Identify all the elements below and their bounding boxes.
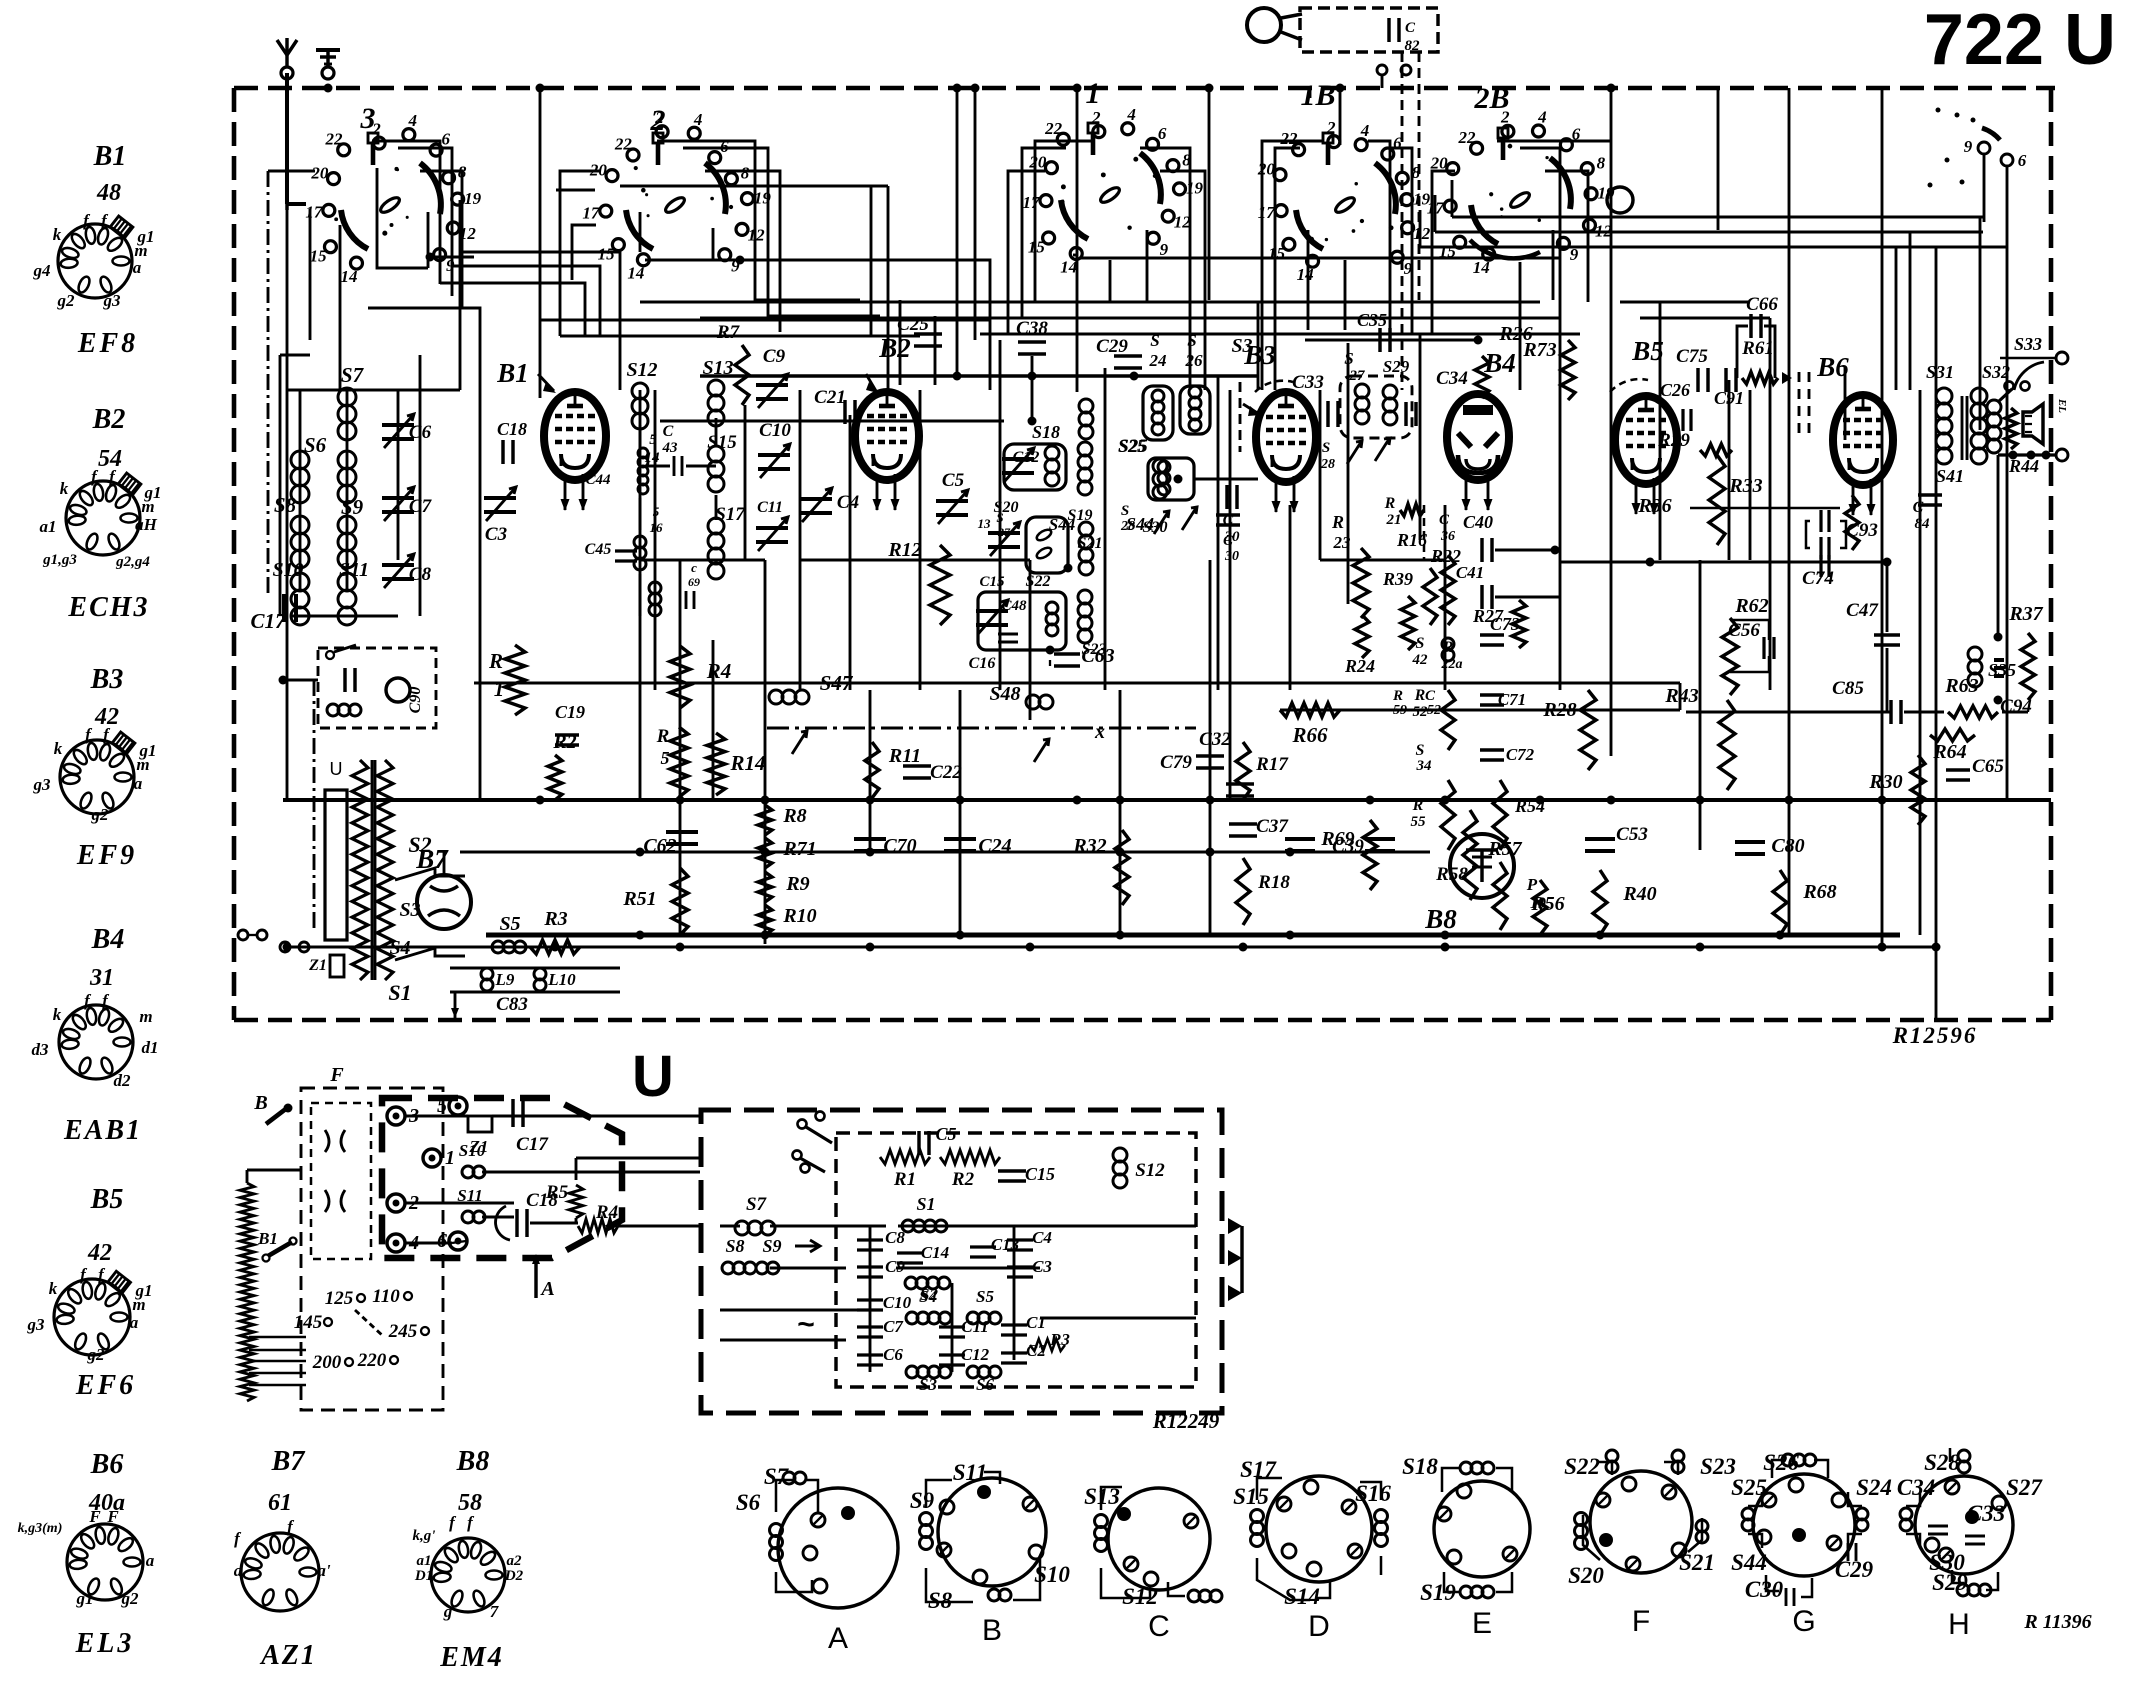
svg-text:g1,g3: g1,g3 — [42, 552, 77, 568]
svg-text:C65: C65 — [1972, 756, 2004, 777]
svg-text:S33: S33 — [2014, 334, 2042, 354]
svg-text:R12596: R12596 — [1892, 1023, 1978, 1048]
svg-text:C47: C47 — [1846, 600, 1879, 621]
svg-text:84: 84 — [1915, 516, 1931, 532]
svg-text:34: 34 — [1416, 758, 1433, 774]
svg-text:C85: C85 — [1832, 678, 1864, 699]
svg-text:R61: R61 — [1741, 338, 1774, 359]
svg-text:g2: g2 — [87, 1345, 106, 1364]
svg-text:22: 22 — [1279, 129, 1298, 148]
svg-text:C70: C70 — [883, 835, 916, 857]
svg-text:S48: S48 — [989, 683, 1020, 705]
svg-text:S32: S32 — [1982, 362, 2010, 382]
svg-text:R10: R10 — [782, 905, 816, 927]
svg-text:g2: g2 — [57, 291, 76, 310]
svg-text:a: a — [133, 258, 142, 277]
svg-text:C32: C32 — [1199, 729, 1231, 750]
svg-text:S4: S4 — [389, 937, 410, 959]
svg-text:S18: S18 — [1032, 422, 1060, 442]
svg-text:C39: C39 — [1332, 836, 1364, 857]
svg-text:C91: C91 — [1714, 388, 1744, 408]
svg-text:S: S — [1322, 440, 1330, 456]
svg-text:2B: 2B — [1473, 82, 1509, 115]
svg-text:31: 31 — [89, 965, 114, 991]
svg-text:B2: B2 — [92, 404, 126, 435]
svg-text:C53: C53 — [1616, 824, 1648, 845]
svg-text:S27: S27 — [2006, 1475, 2043, 1500]
svg-text:S44: S44 — [1731, 1550, 1767, 1575]
svg-text:C7: C7 — [883, 1317, 904, 1336]
svg-text:EF9: EF9 — [76, 840, 137, 871]
svg-text:69: 69 — [688, 575, 700, 589]
svg-text:d3: d3 — [32, 1040, 50, 1059]
svg-text:S8: S8 — [725, 1236, 744, 1256]
svg-text:C72: C72 — [1506, 745, 1535, 764]
svg-text:R: R — [1384, 495, 1396, 512]
svg-text:S7: S7 — [341, 363, 365, 387]
svg-text:C34: C34 — [1897, 1475, 1935, 1500]
svg-text:5: 5 — [661, 748, 670, 768]
svg-text:C66: C66 — [1746, 294, 1778, 315]
svg-text:22: 22 — [1457, 128, 1476, 147]
svg-text:C80: C80 — [1771, 835, 1804, 857]
svg-text:F: F — [1632, 1605, 1650, 1638]
svg-text:S3: S3 — [1231, 335, 1252, 357]
svg-text:6: 6 — [1158, 124, 1167, 143]
svg-text:R44: R44 — [2008, 456, 2039, 476]
svg-text:a: a — [134, 774, 143, 793]
svg-text:R27: R27 — [1472, 606, 1504, 626]
svg-text:R16: R16 — [1396, 530, 1427, 550]
svg-text:AZ1: AZ1 — [259, 1640, 317, 1671]
svg-text:C79: C79 — [1160, 752, 1192, 773]
svg-text:S3: S3 — [399, 899, 420, 921]
svg-text:C75: C75 — [1676, 346, 1708, 367]
svg-text:C33: C33 — [1967, 1501, 2005, 1526]
svg-text:EAB1: EAB1 — [63, 1115, 142, 1146]
svg-text:C48: C48 — [1001, 598, 1027, 614]
svg-text:19: 19 — [464, 189, 482, 208]
svg-text:28: 28 — [1120, 519, 1135, 534]
svg-text:17: 17 — [305, 203, 324, 222]
svg-text:S9: S9 — [762, 1236, 781, 1256]
svg-text:1B: 1B — [1300, 79, 1335, 112]
svg-text:R14: R14 — [729, 751, 765, 775]
svg-text:C: C — [663, 423, 674, 440]
svg-text:43: 43 — [662, 440, 679, 456]
svg-text:C: C — [1913, 499, 1924, 516]
svg-text:14: 14 — [340, 267, 357, 286]
svg-text:R66: R66 — [1291, 723, 1328, 747]
svg-text:R18: R18 — [1257, 872, 1290, 893]
svg-text:EL: EL — [2056, 398, 2068, 413]
svg-text:20: 20 — [1430, 153, 1449, 172]
svg-text:F: F — [88, 1507, 101, 1526]
svg-text:g3: g3 — [103, 291, 122, 310]
svg-text:L10: L10 — [547, 970, 576, 989]
svg-text:C21: C21 — [814, 387, 846, 408]
svg-text:B5: B5 — [90, 1184, 124, 1215]
svg-text:R7: R7 — [716, 322, 741, 343]
svg-text:R71: R71 — [782, 838, 816, 860]
svg-text:S1: S1 — [916, 1194, 935, 1214]
svg-text:C: C — [1425, 688, 1436, 704]
svg-text:B7: B7 — [271, 1446, 306, 1477]
svg-text:S28: S28 — [1924, 1450, 1960, 1475]
svg-text:S8: S8 — [274, 493, 297, 517]
svg-text:S41: S41 — [1936, 466, 1964, 486]
svg-text:m: m — [139, 1007, 152, 1026]
svg-text:C16: C16 — [969, 655, 996, 672]
svg-text:ECH3: ECH3 — [67, 592, 149, 623]
svg-text:EF6: EF6 — [75, 1370, 136, 1401]
svg-text:14: 14 — [1297, 265, 1314, 284]
svg-text:R73: R73 — [1522, 339, 1556, 361]
svg-text:R12249: R12249 — [1152, 1409, 1220, 1433]
svg-text:42: 42 — [87, 1240, 112, 1266]
svg-text:59: 59 — [1393, 703, 1407, 718]
svg-text:F: F — [329, 1064, 344, 1086]
svg-text:R37: R37 — [2008, 603, 2043, 625]
svg-text:S: S — [1121, 503, 1129, 519]
svg-text:g: g — [443, 1602, 453, 1621]
svg-text:C3: C3 — [1032, 1257, 1052, 1276]
svg-text:22: 22 — [325, 129, 344, 148]
svg-text:C34: C34 — [1436, 368, 1468, 389]
svg-text:C12: C12 — [1013, 449, 1040, 466]
svg-text:B8: B8 — [456, 1446, 490, 1477]
svg-text:R: R — [656, 726, 670, 747]
svg-text:1: 1 — [445, 1147, 455, 1169]
svg-text:k,g3(m): k,g3(m) — [18, 1521, 63, 1536]
svg-text:R1: R1 — [893, 1169, 916, 1190]
svg-text:20: 20 — [310, 163, 329, 182]
svg-text:C15: C15 — [1025, 1164, 1055, 1184]
svg-text:S25: S25 — [1118, 436, 1146, 456]
svg-text:S8: S8 — [928, 1588, 953, 1613]
svg-text:C4: C4 — [837, 492, 859, 513]
svg-text:C5: C5 — [935, 1124, 956, 1144]
svg-text:g2,g4: g2,g4 — [115, 554, 150, 570]
svg-text:m: m — [132, 1295, 145, 1314]
svg-text:S7: S7 — [746, 1194, 768, 1215]
svg-text:E: E — [1472, 1607, 1492, 1640]
svg-text:S47: S47 — [820, 671, 854, 695]
svg-text:4: 4 — [1126, 105, 1136, 124]
svg-text:a: a — [234, 1561, 243, 1580]
svg-text:B: B — [982, 1614, 1002, 1647]
svg-text:c: c — [691, 560, 697, 575]
svg-text:42: 42 — [1412, 652, 1429, 668]
svg-text:C11: C11 — [757, 499, 783, 516]
svg-text:R4: R4 — [595, 1202, 618, 1223]
svg-text:52: 52 — [1427, 703, 1441, 718]
svg-text:4: 4 — [1537, 108, 1547, 127]
svg-text:B1: B1 — [93, 141, 127, 172]
svg-text:27: 27 — [1349, 368, 1366, 384]
svg-text:F: F — [106, 1507, 119, 1526]
svg-text:C9: C9 — [885, 1257, 905, 1276]
svg-text:6: 6 — [2018, 151, 2027, 170]
svg-text:14: 14 — [627, 264, 644, 283]
svg-text:8: 8 — [1597, 153, 1606, 172]
svg-text:R33: R33 — [1728, 475, 1762, 497]
svg-text:S: S — [1416, 742, 1425, 759]
svg-text:20: 20 — [1257, 159, 1276, 178]
svg-text:U: U — [632, 1044, 674, 1109]
svg-text:B1: B1 — [257, 1229, 278, 1248]
svg-text:C71: C71 — [1498, 690, 1526, 709]
svg-text:EM4: EM4 — [439, 1642, 504, 1673]
svg-text:C26: C26 — [1660, 380, 1690, 400]
svg-text:C: C — [1439, 512, 1450, 528]
svg-text:S: S — [1150, 331, 1159, 350]
svg-text:9: 9 — [1160, 240, 1169, 259]
svg-text:26: 26 — [1185, 351, 1204, 370]
svg-text:R11: R11 — [888, 745, 921, 767]
svg-text:17: 17 — [1023, 193, 1042, 212]
svg-text:14: 14 — [1060, 258, 1077, 277]
svg-text:5: 5 — [653, 504, 660, 519]
svg-text:a: a — [146, 1551, 155, 1570]
svg-text:5: 5 — [649, 432, 657, 448]
svg-text:61: 61 — [268, 1490, 292, 1516]
svg-text:28: 28 — [1320, 457, 1335, 472]
svg-text:C35: C35 — [1357, 310, 1387, 330]
svg-text:~: ~ — [797, 1308, 815, 1341]
svg-text:x: x — [1094, 721, 1105, 743]
svg-text:15: 15 — [1028, 238, 1046, 257]
svg-text:R 11396: R 11396 — [2023, 1611, 2091, 1633]
svg-text:B: B — [253, 1092, 267, 1114]
svg-text:S5: S5 — [499, 913, 520, 935]
svg-text:C9: C9 — [763, 346, 786, 367]
svg-text:125: 125 — [325, 1288, 354, 1309]
svg-text:C41: C41 — [1456, 563, 1484, 582]
svg-text:C45: C45 — [585, 541, 612, 558]
svg-text:S22: S22 — [1026, 573, 1051, 590]
svg-text:S29: S29 — [1383, 357, 1410, 376]
svg-text:R12: R12 — [887, 539, 921, 561]
svg-text:4: 4 — [693, 110, 703, 129]
svg-text:S16: S16 — [1355, 1481, 1391, 1506]
svg-text:k: k — [53, 1005, 62, 1024]
svg-text:S30: S30 — [1143, 519, 1168, 536]
svg-text:15: 15 — [1268, 244, 1286, 263]
svg-text:15: 15 — [310, 246, 328, 265]
svg-text:1: 1 — [494, 677, 505, 701]
svg-text:R4: R4 — [706, 659, 732, 683]
svg-text:R24: R24 — [1344, 656, 1375, 676]
svg-text:R17: R17 — [1255, 754, 1289, 775]
svg-text:S: S — [996, 510, 1003, 525]
svg-text:R3: R3 — [1049, 1330, 1070, 1349]
svg-text:C17: C17 — [516, 1134, 549, 1155]
svg-text:a1: a1 — [417, 1553, 432, 1569]
svg-text:C6: C6 — [883, 1345, 903, 1364]
svg-text:S9: S9 — [910, 1488, 935, 1513]
svg-text:S18: S18 — [1402, 1454, 1438, 1479]
svg-text:C29: C29 — [1835, 1557, 1874, 1582]
svg-text:1: 1 — [1086, 77, 1101, 110]
svg-text:52: 52 — [1413, 704, 1429, 720]
svg-text:S21: S21 — [1078, 535, 1103, 552]
svg-text:R: R — [1331, 512, 1344, 532]
svg-text:R: R — [1442, 639, 1454, 656]
svg-text:C11: C11 — [961, 1317, 988, 1336]
svg-text:B3: B3 — [90, 664, 124, 695]
svg-text:15: 15 — [598, 244, 616, 263]
svg-text:S12: S12 — [1135, 1160, 1165, 1181]
svg-text:g3: g3 — [33, 775, 52, 794]
svg-text:22: 22 — [1044, 119, 1063, 138]
svg-text:R64: R64 — [1932, 741, 1966, 763]
svg-text:82: 82 — [1405, 38, 1421, 54]
svg-text:9: 9 — [1964, 137, 1973, 156]
svg-text:S14: S14 — [1284, 1584, 1320, 1609]
svg-text:L9: L9 — [495, 970, 515, 989]
svg-text:S21: S21 — [1679, 1550, 1715, 1575]
svg-text:C94: C94 — [2000, 696, 2032, 717]
svg-text:R30: R30 — [1868, 771, 1902, 793]
svg-text:g2: g2 — [121, 1589, 140, 1608]
svg-text:C18: C18 — [497, 419, 527, 439]
svg-text:8: 8 — [741, 163, 750, 182]
svg-text:C5: C5 — [942, 470, 965, 491]
svg-text:R: R — [1412, 797, 1424, 814]
svg-text:20: 20 — [1028, 152, 1047, 171]
svg-text:C30: C30 — [1745, 1577, 1784, 1602]
svg-text:C29: C29 — [1096, 336, 1128, 357]
svg-text:48: 48 — [96, 180, 121, 206]
svg-text:245: 245 — [388, 1321, 418, 1342]
svg-text:R68: R68 — [1802, 881, 1836, 903]
svg-text:C40: C40 — [1463, 512, 1493, 532]
svg-text:S23: S23 — [1082, 641, 1107, 658]
svg-text:S12: S12 — [1122, 1584, 1158, 1609]
svg-text:6: 6 — [437, 1230, 447, 1252]
svg-text:R: R — [1392, 688, 1403, 704]
svg-text:220: 220 — [357, 1350, 387, 1371]
svg-text:4: 4 — [1360, 121, 1370, 140]
svg-text:S15: S15 — [1233, 1484, 1269, 1509]
svg-text:C3: C3 — [485, 524, 507, 545]
svg-text:13: 13 — [978, 516, 992, 531]
svg-text:C: C — [1148, 1610, 1170, 1643]
svg-text:g2: g2 — [91, 805, 110, 824]
svg-text:16: 16 — [650, 520, 664, 535]
svg-text:g4: g4 — [33, 261, 51, 280]
svg-text:S12: S12 — [626, 359, 657, 381]
svg-text:R43: R43 — [1664, 685, 1698, 707]
svg-text:D2: D2 — [504, 1568, 524, 1584]
svg-text:145: 145 — [294, 1312, 323, 1333]
svg-text:C17: C17 — [250, 609, 287, 633]
svg-text:g1: g1 — [76, 1589, 94, 1608]
svg-text:R: R — [488, 649, 503, 673]
svg-text:S17: S17 — [715, 504, 746, 525]
svg-text:S11: S11 — [953, 1460, 988, 1485]
svg-text:R62: R62 — [1734, 595, 1768, 617]
svg-text:S22: S22 — [1564, 1454, 1600, 1479]
svg-text:6: 6 — [441, 130, 450, 149]
svg-text:R36: R36 — [1637, 495, 1671, 517]
svg-text:S24: S24 — [1856, 1475, 1892, 1500]
svg-text:C90: C90 — [407, 687, 424, 714]
svg-text:C24: C24 — [978, 835, 1011, 857]
svg-text:36: 36 — [1440, 529, 1455, 544]
svg-text:S4: S4 — [919, 1287, 937, 1306]
svg-text:110: 110 — [372, 1286, 400, 1307]
svg-text:EL3: EL3 — [75, 1628, 135, 1659]
svg-text:B6: B6 — [90, 1449, 124, 1480]
svg-text:C38: C38 — [1016, 318, 1048, 339]
svg-text:B2: B2 — [878, 333, 911, 363]
svg-text:C: C — [1405, 20, 1416, 36]
svg-text:H: H — [1948, 1608, 1970, 1641]
svg-text:G: G — [1792, 1605, 1815, 1638]
svg-text:17: 17 — [582, 203, 601, 222]
svg-text:R51: R51 — [622, 888, 656, 910]
svg-text:A: A — [539, 1278, 554, 1300]
svg-text:B1: B1 — [496, 358, 529, 388]
svg-text:S31: S31 — [1926, 362, 1954, 382]
svg-text:a: a — [130, 1313, 139, 1332]
svg-text:S3: S3 — [919, 1375, 937, 1394]
svg-text:S2: S2 — [408, 832, 431, 857]
svg-text:a': a' — [317, 1561, 331, 1580]
svg-text:B4: B4 — [91, 924, 125, 955]
svg-text:S9: S9 — [341, 495, 364, 519]
svg-text:C19: C19 — [555, 702, 585, 722]
svg-text:C93: C93 — [1846, 520, 1878, 541]
svg-text:5: 5 — [437, 1095, 447, 1117]
svg-text:k: k — [60, 479, 69, 498]
svg-text:d2: d2 — [114, 1071, 132, 1090]
svg-text:k: k — [49, 1279, 58, 1298]
svg-text:R3: R3 — [543, 908, 567, 930]
svg-text:R9: R9 — [785, 873, 809, 895]
svg-text:Z1: Z1 — [308, 957, 327, 974]
svg-text:R8: R8 — [782, 805, 806, 827]
svg-text:S10: S10 — [459, 1141, 486, 1160]
svg-text:C62: C62 — [643, 835, 676, 857]
svg-text:2: 2 — [650, 104, 666, 137]
svg-text:30: 30 — [1224, 549, 1239, 564]
svg-text:C14: C14 — [921, 1243, 949, 1262]
svg-text:R5: R5 — [545, 1182, 569, 1203]
svg-text:R40: R40 — [1622, 883, 1656, 905]
svg-text:C1: C1 — [1026, 1313, 1046, 1332]
svg-text:S13: S13 — [702, 357, 733, 379]
svg-text:B8: B8 — [1424, 904, 1457, 934]
svg-text:S6: S6 — [976, 1375, 994, 1394]
svg-text:C8: C8 — [885, 1228, 905, 1247]
svg-text:aH: aH — [135, 515, 158, 534]
svg-text:P: P — [1526, 875, 1538, 894]
svg-text:C12: C12 — [961, 1345, 990, 1364]
svg-text:4: 4 — [407, 111, 417, 130]
svg-text:C15: C15 — [979, 574, 1005, 590]
svg-text:C22: C22 — [930, 762, 962, 783]
svg-text:D: D — [1308, 1610, 1330, 1643]
svg-text:S1: S1 — [388, 980, 411, 1005]
svg-text:17: 17 — [1258, 203, 1277, 222]
svg-text:22a: 22a — [1441, 657, 1463, 672]
svg-text:R2: R2 — [951, 1169, 975, 1190]
svg-text:27: 27 — [997, 525, 1011, 539]
svg-text:C25: C25 — [897, 314, 929, 335]
